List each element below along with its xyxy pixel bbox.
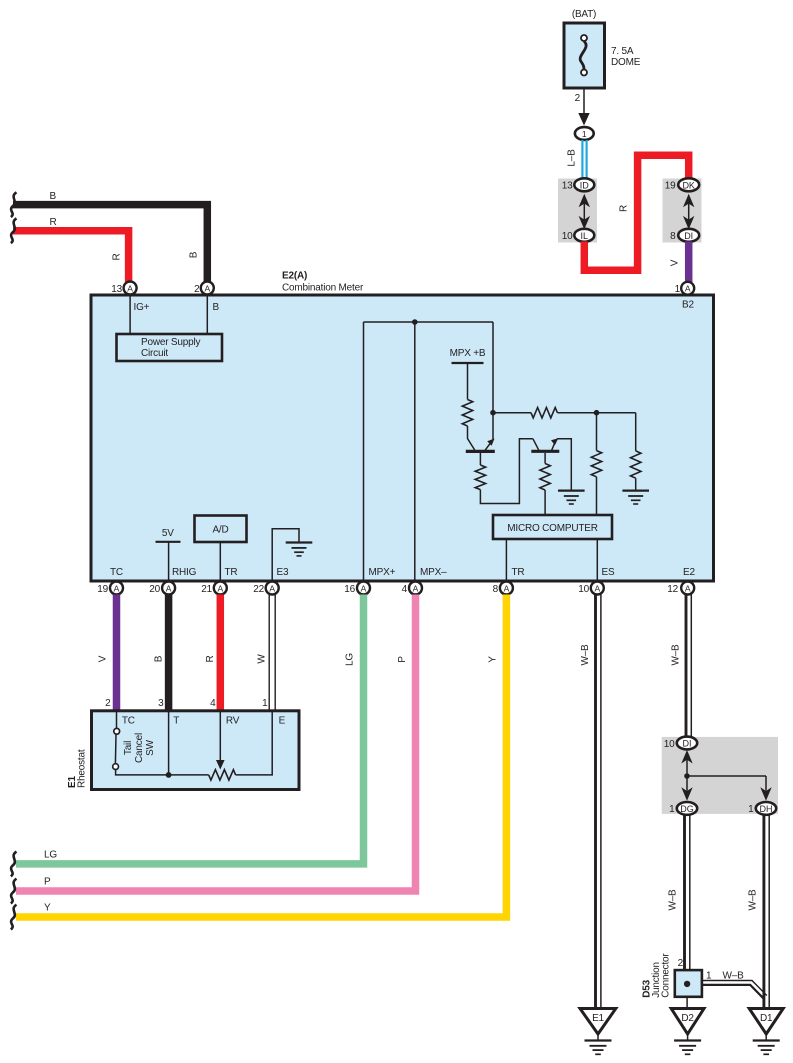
wire W-B pin12 to DI [671, 595, 692, 738]
wire break squiggle P [11, 879, 17, 904]
svg-text:A: A [127, 283, 133, 293]
svg-text:7. 5A: 7. 5A [611, 46, 634, 57]
svg-text:ID: ID [580, 180, 590, 190]
svg-text:B2: B2 [682, 300, 694, 311]
resistor R1 [462, 400, 472, 427]
wire W-B D53 pin1 to D1 [702, 971, 767, 999]
svg-text:A: A [685, 284, 691, 294]
wire MPX- riser [414, 322, 416, 580]
pin 2 A [194, 282, 219, 314]
svg-text:13: 13 [562, 181, 573, 192]
wire fuse pin 2 [575, 88, 590, 126]
ground G1 [558, 491, 585, 504]
wire W pin22 to rheostat [257, 595, 276, 711]
svg-text:10: 10 [562, 231, 573, 242]
svg-text:B: B [50, 191, 57, 202]
svg-text:A: A [217, 583, 223, 593]
wire arrow to DG [681, 787, 692, 801]
svg-text:MICRO COMPUTER: MICRO COMPUTER [507, 523, 598, 534]
power supply circuit box [117, 295, 223, 362]
pin 13 A [111, 282, 149, 314]
resistor R3 [540, 464, 550, 491]
wire R thick red [584, 155, 688, 270]
wire node row [493, 412, 531, 414]
ground G2 [622, 491, 649, 504]
svg-text:RHIG: RHIG [172, 567, 197, 578]
wire W-B pin10 to ground E1 [580, 595, 601, 1009]
svg-text:E: E [279, 716, 286, 727]
svg-text:2: 2 [678, 958, 684, 969]
node junction on top bus [412, 319, 418, 325]
svg-text:A: A [166, 583, 172, 593]
resistor R4 [531, 408, 557, 418]
wire R pin21 to rheostat [205, 595, 220, 711]
svg-text:Cancel: Cancel [134, 733, 145, 763]
transistor Q2 [531, 438, 559, 451]
svg-text:E2(A): E2(A) [282, 271, 307, 282]
ground triangle D2 [671, 1009, 704, 1055]
node pin 1 A (B2) [675, 282, 695, 295]
wire R6 branch [596, 413, 598, 451]
wire double arrow ID-IL [583, 198, 585, 225]
svg-text:Rheostat: Rheostat [77, 749, 88, 788]
svg-text:16: 16 [344, 584, 355, 595]
svg-text:R: R [619, 205, 630, 212]
switch tail cancel SW [113, 711, 156, 770]
connector IL pin 10 [574, 229, 594, 242]
svg-text:A: A [269, 583, 275, 593]
wire R6 to micro computer [596, 477, 598, 515]
wire MPX+ riser [363, 322, 365, 580]
svg-text:A: A [361, 583, 367, 593]
svg-text:V: V [98, 655, 109, 662]
connector block ID/IL [558, 178, 597, 242]
svg-text:19: 19 [665, 181, 676, 192]
wire Q2 emitter to ground [557, 439, 572, 491]
resistor R7 rheostat element [209, 770, 236, 780]
svg-text:SW: SW [145, 739, 156, 755]
svg-text:1: 1 [675, 284, 681, 295]
svg-text:A: A [204, 283, 210, 293]
connector DH pin 1 [756, 802, 776, 815]
svg-text:8: 8 [493, 584, 499, 595]
node emitter junction [490, 410, 496, 416]
svg-text:19: 19 [97, 584, 108, 595]
svg-text:3: 3 [158, 698, 164, 709]
svg-text:2: 2 [105, 698, 111, 709]
fuse 7.5A DOME (BAT) [564, 9, 641, 88]
svg-text:DI: DI [684, 231, 693, 241]
pin 21 A TR [201, 567, 237, 595]
svg-text:Tail: Tail [123, 741, 134, 755]
svg-text:DK: DK [682, 180, 695, 190]
svg-text:W–B: W–B [668, 889, 679, 911]
wire L-B [567, 140, 587, 179]
pin 19 A TC [97, 567, 123, 595]
connector DK pin 19 [678, 178, 699, 191]
svg-text:MPX +B: MPX +B [450, 348, 486, 359]
wire internal top bus [364, 321, 494, 323]
svg-text:4: 4 [210, 698, 216, 709]
transistor Q1 [466, 439, 495, 452]
svg-text:A: A [685, 583, 691, 593]
svg-text:DH: DH [760, 804, 773, 814]
wire break squiggle B [11, 192, 17, 217]
wire B black from left [13, 191, 207, 282]
svg-text:P: P [44, 877, 51, 888]
connector DI pin 10 [677, 737, 697, 750]
ground G3 [286, 543, 313, 556]
svg-text:B: B [154, 655, 165, 662]
wire R red from left [13, 217, 129, 282]
wire break squiggle LG [11, 852, 17, 877]
wire double arrow DK-DI [688, 198, 690, 225]
svg-text:Combination Meter: Combination Meter [282, 283, 364, 294]
svg-text:DG: DG [680, 804, 694, 814]
svg-text:21: 21 [201, 584, 212, 595]
wire W-B DG to D53 [668, 815, 690, 970]
pin 8 A TR [493, 567, 525, 595]
svg-text:4: 4 [402, 584, 408, 595]
wire arrow to DH [765, 776, 767, 791]
wire Q2 base [544, 453, 546, 464]
pin 22 A E3 [253, 567, 289, 595]
svg-text:2: 2 [575, 93, 581, 104]
resistor R2 [475, 465, 485, 490]
svg-text:10: 10 [578, 584, 589, 595]
wire E3 to internal ground [272, 529, 299, 580]
combination meter box E2(A) [91, 271, 714, 582]
svg-text:8: 8 [670, 231, 676, 242]
svg-text:A: A [413, 583, 419, 593]
wire D53 to ground D2 [686, 997, 688, 1009]
connector 1 oval [575, 127, 594, 140]
junction connector D53 [675, 958, 702, 997]
resistor R6 [591, 451, 601, 477]
svg-text:IG+: IG+ [134, 302, 150, 313]
svg-text:D2: D2 [681, 1013, 694, 1024]
wire B pin20 to rheostat [154, 595, 169, 711]
svg-text:A/D: A/D [212, 525, 228, 536]
svg-text:1: 1 [582, 129, 587, 139]
svg-text:R: R [50, 217, 57, 228]
wire MC to TR pin [505, 539, 507, 580]
wire R5 to ground [635, 478, 637, 490]
svg-text:TC: TC [110, 567, 123, 578]
wire arrow DI to node [681, 750, 692, 764]
connector block DK/DI [663, 178, 702, 242]
svg-text:Power Supply: Power Supply [141, 337, 200, 348]
svg-text:(BAT): (BAT) [572, 9, 596, 20]
svg-text:V: V [670, 259, 681, 266]
svg-text:1: 1 [262, 698, 268, 709]
wire Y pin8 [16, 595, 506, 918]
wiper RV arrow [216, 711, 225, 770]
wire node to DH branch [687, 775, 766, 777]
pin 20 A RHIG [149, 567, 196, 595]
A/D converter box [195, 516, 247, 581]
svg-text:A: A [504, 583, 510, 593]
svg-text:22: 22 [253, 584, 264, 595]
svg-text:R: R [205, 655, 216, 662]
svg-text:W–B: W–B [580, 644, 591, 666]
wire R4 to R5 [557, 412, 635, 414]
svg-text:ES: ES [602, 567, 615, 578]
svg-text:Y: Y [488, 656, 499, 663]
svg-text:2: 2 [194, 284, 200, 295]
wire W-B DH to ground D1 [748, 815, 770, 1009]
svg-text:MPX+: MPX+ [369, 567, 396, 578]
svg-text:P: P [397, 656, 408, 663]
svg-text:B: B [189, 251, 200, 258]
svg-text:E1: E1 [592, 1013, 604, 1024]
wire P pin4 [16, 595, 416, 892]
wire V pin19 to rheostat [98, 595, 117, 711]
svg-text:DI: DI [683, 739, 692, 749]
svg-text:R: R [112, 253, 123, 260]
svg-text:A: A [114, 583, 120, 593]
svg-text:5V: 5V [162, 528, 174, 539]
pin 12 A E2 [667, 567, 695, 595]
wire R7 to E [236, 711, 273, 775]
svg-text:W: W [257, 654, 268, 664]
svg-text:Circuit: Circuit [141, 348, 168, 359]
svg-text:Connector: Connector [661, 953, 672, 998]
wire V violet [670, 242, 689, 283]
svg-text:DOME: DOME [611, 57, 641, 68]
wire emitter riser [492, 322, 494, 440]
ground triangle D1 [749, 1009, 783, 1055]
wire MC to ES pin [596, 539, 598, 580]
svg-text:E3: E3 [277, 567, 289, 578]
wire T riser [168, 711, 170, 775]
svg-text:Y: Y [44, 903, 51, 914]
svg-text:1: 1 [669, 804, 675, 815]
svg-text:A: A [594, 583, 600, 593]
svg-text:B: B [213, 302, 220, 313]
svg-text:TR: TR [225, 567, 238, 578]
pin 10 A ES [578, 567, 615, 595]
pin 16 A MPX+ [344, 567, 395, 595]
svg-text:L–B: L–B [567, 149, 578, 167]
svg-text:T: T [173, 716, 179, 727]
wire R1 to Q1 collector [468, 426, 475, 450]
svg-text:13: 13 [111, 284, 122, 295]
svg-text:TR: TR [512, 567, 525, 578]
svg-text:LG: LG [44, 850, 57, 861]
wire break squiggle Y [11, 905, 17, 930]
node junction T [166, 772, 172, 778]
svg-text:MPX–: MPX– [420, 567, 447, 578]
svg-text:IL: IL [581, 231, 589, 241]
wire R3 to micro computer [544, 490, 546, 515]
ground triangle E1 [580, 1009, 616, 1055]
wire break squiggle R [11, 218, 17, 243]
power symbol 5V [156, 528, 181, 580]
wire Q1 base network [479, 453, 481, 465]
label D53 Junction Connector [642, 953, 672, 998]
connector DG pin 1 [677, 802, 697, 815]
micro computer U1 [493, 515, 612, 539]
pin 4 A MPX- [402, 567, 447, 595]
wire LG pin16 [16, 595, 364, 864]
svg-text:TC: TC [122, 716, 135, 727]
svg-text:W–B: W–B [748, 889, 759, 911]
svg-text:12: 12 [667, 584, 678, 595]
connector DI pin 8 [678, 229, 699, 242]
svg-text:20: 20 [149, 584, 160, 595]
rheostat E1 box [92, 711, 300, 790]
svg-text:RV: RV [226, 716, 240, 727]
svg-text:10: 10 [664, 739, 675, 750]
svg-text:W–B: W–B [671, 644, 682, 666]
svg-text:E2: E2 [683, 567, 695, 578]
wire down to R5 [635, 413, 637, 451]
wire R2 to Q2 collector [480, 439, 533, 504]
node junction R6 [594, 410, 600, 416]
svg-text:1: 1 [748, 804, 754, 815]
power symbol MPX +B [450, 348, 486, 400]
connector block DI/DG/DH [662, 737, 778, 816]
wire switch to bus [116, 770, 209, 775]
resistor R5 [631, 451, 641, 478]
connector ID pin 13 [574, 178, 594, 191]
fuse body [564, 23, 605, 88]
svg-text:D1: D1 [760, 1013, 773, 1024]
node junction [684, 773, 690, 779]
svg-text:LG: LG [345, 653, 356, 666]
